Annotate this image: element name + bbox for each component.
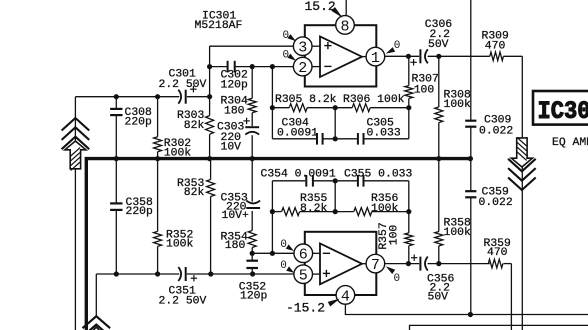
svg-text:0: 0 bbox=[280, 239, 287, 251]
svg-text:10V+: 10V+ bbox=[222, 210, 250, 222]
svg-text:M5218AF: M5218AF bbox=[195, 20, 243, 32]
wire bbox=[95, 274, 97, 317]
wire bbox=[438, 159, 440, 264]
voltage -15.2 at pin 4 bbox=[286, 299, 340, 316]
wire bbox=[334, 108, 336, 139]
svg-text:8: 8 bbox=[340, 18, 349, 35]
label IC301 bbox=[202, 11, 236, 23]
svg-text:180: 180 bbox=[225, 240, 246, 252]
wire bbox=[271, 67, 273, 139]
svg-text:100: 100 bbox=[389, 225, 401, 246]
voltage 0 at pin 6 bbox=[280, 239, 293, 251]
junction bbox=[114, 271, 119, 276]
wire bbox=[252, 252, 294, 254]
junction bbox=[114, 94, 119, 99]
wire bbox=[428, 55, 523, 57]
op-amp U301a + input mark bbox=[324, 42, 331, 49]
svg-text:100k: 100k bbox=[166, 239, 194, 251]
svg-text:4: 4 bbox=[341, 288, 350, 305]
resistor R355 bbox=[282, 193, 328, 216]
junction bbox=[436, 156, 441, 161]
wire bbox=[210, 66, 294, 68]
svg-text:15.2: 15.2 bbox=[305, 0, 336, 14]
svg-text:0.0091: 0.0091 bbox=[277, 128, 318, 140]
svg-text:50V: 50V bbox=[428, 39, 449, 51]
wire bbox=[157, 97, 159, 159]
junction bbox=[250, 156, 255, 161]
resistor R359 bbox=[484, 238, 512, 268]
svg-text:C355 0.033: C355 0.033 bbox=[344, 169, 413, 181]
op-amp U301b - input mark bbox=[323, 252, 330, 254]
wire bbox=[408, 56, 410, 139]
junction bbox=[468, 156, 473, 161]
capacitor C356 bbox=[411, 255, 455, 304]
junction bbox=[250, 271, 255, 276]
label EQ AMP bbox=[552, 137, 588, 149]
wire bbox=[312, 252, 320, 254]
junction bbox=[436, 261, 441, 266]
wire bbox=[187, 273, 294, 275]
capacitor C306 bbox=[410, 19, 452, 66]
svg-text:2: 2 bbox=[298, 60, 307, 77]
junction bbox=[270, 251, 275, 256]
capacitor C359 bbox=[465, 186, 513, 209]
resistor R304 bbox=[221, 96, 257, 118]
junction bbox=[406, 54, 411, 59]
wire bbox=[438, 56, 440, 158]
voltage 0 at pin 5 bbox=[280, 260, 294, 273]
svg-text:100: 100 bbox=[414, 85, 435, 97]
wire bbox=[74, 97, 76, 330]
wire bbox=[345, 304, 588, 315]
capacitor C358 bbox=[110, 197, 153, 218]
svg-text:6: 6 bbox=[299, 247, 308, 264]
svg-text:EQ AMP: EQ AMP bbox=[552, 137, 588, 149]
op-amp U301a triangle bbox=[320, 36, 362, 77]
wire bbox=[345, 0, 347, 16]
junction bbox=[207, 64, 212, 69]
junction bbox=[436, 54, 441, 59]
wire bbox=[272, 138, 408, 140]
svg-text:220p: 220p bbox=[126, 206, 154, 218]
wire bbox=[385, 55, 420, 57]
resistor R302 bbox=[154, 137, 192, 160]
op-amp U301b box bbox=[305, 232, 377, 295]
label M5218AF bbox=[195, 20, 243, 32]
junction bbox=[333, 178, 338, 183]
voltage 0 at pin 7 bbox=[386, 266, 400, 285]
svg-text:50V: 50V bbox=[428, 292, 449, 304]
svg-text:82k: 82k bbox=[184, 120, 205, 132]
svg-text:0: 0 bbox=[394, 273, 401, 285]
resistor R308 bbox=[435, 90, 471, 123]
capacitor C304 bbox=[277, 118, 323, 145]
capacitor C355 bbox=[344, 169, 413, 187]
resistor R309 bbox=[482, 31, 510, 61]
resistor R305 bbox=[275, 94, 337, 112]
wire bbox=[408, 181, 410, 264]
resistor R303 bbox=[177, 110, 214, 134]
junction bbox=[155, 94, 160, 99]
resistor R357 bbox=[378, 222, 413, 249]
ground bus bbox=[86, 159, 470, 330]
wire bbox=[272, 107, 408, 109]
resistor R354 bbox=[221, 231, 257, 253]
op-amp U301b pin 4 bbox=[336, 286, 355, 306]
op-amp U301a pin 8 bbox=[336, 16, 355, 36]
shielded cable (input L) bbox=[62, 118, 90, 170]
wire bbox=[272, 180, 408, 182]
capacitor C352 bbox=[239, 261, 268, 303]
capacitor C305 bbox=[358, 118, 401, 145]
wire bbox=[510, 264, 512, 330]
svg-text:180: 180 bbox=[224, 105, 245, 117]
svg-text:100k: 100k bbox=[444, 227, 472, 239]
svg-text:IC301: IC301 bbox=[538, 98, 588, 127]
svg-text:10V: 10V bbox=[221, 142, 242, 154]
wire bbox=[271, 181, 273, 254]
svg-text:0: 0 bbox=[283, 30, 290, 42]
wire bbox=[312, 45, 320, 47]
wire bbox=[385, 263, 420, 265]
wire bbox=[187, 96, 210, 98]
wire bbox=[210, 159, 212, 274]
resistor R358 bbox=[435, 217, 471, 246]
op-amp U301a pin 2 bbox=[293, 57, 312, 77]
wire bbox=[272, 211, 408, 213]
capacitor C351 bbox=[159, 267, 207, 308]
junction bbox=[406, 105, 411, 110]
wire bbox=[75, 96, 179, 98]
shielded cable (input R) bbox=[83, 316, 111, 330]
svg-text:100k: 100k bbox=[371, 203, 399, 215]
resistor R356 bbox=[354, 193, 399, 216]
shielded cable (output L) bbox=[508, 138, 536, 190]
wire bbox=[209, 46, 211, 159]
svg-text:0.033: 0.033 bbox=[367, 128, 401, 140]
junction bbox=[114, 156, 119, 161]
capacitor C353 bbox=[221, 193, 261, 223]
svg-text:0: 0 bbox=[394, 40, 401, 52]
resistor R353 bbox=[177, 178, 215, 199]
wire bbox=[362, 56, 366, 58]
svg-text:0.022: 0.022 bbox=[479, 197, 513, 209]
junction bbox=[468, 312, 473, 317]
wire bbox=[410, 325, 588, 330]
junction bbox=[406, 261, 411, 266]
svg-text:0.022: 0.022 bbox=[479, 125, 513, 137]
wire bbox=[115, 159, 117, 274]
svg-text:2.2 50V: 2.2 50V bbox=[159, 79, 207, 91]
op-amp U301a box bbox=[305, 25, 377, 86]
junction bbox=[207, 94, 212, 99]
op-amp U301a pin 1 bbox=[366, 47, 385, 67]
svg-text:220p: 220p bbox=[125, 116, 153, 128]
svg-text:8.2k: 8.2k bbox=[300, 203, 328, 215]
capacitor C354 bbox=[261, 169, 336, 187]
junction bbox=[270, 209, 275, 214]
junction bbox=[333, 209, 338, 214]
wire bbox=[470, 0, 472, 315]
op-amp U301b pin 5 bbox=[294, 265, 313, 285]
svg-text:470: 470 bbox=[487, 247, 508, 259]
voltage 0 at pin 2 bbox=[283, 50, 297, 62]
wire bbox=[210, 45, 294, 47]
svg-text:0: 0 bbox=[283, 50, 290, 62]
svg-text:2.2 50V: 2.2 50V bbox=[159, 296, 207, 308]
junction bbox=[250, 251, 255, 256]
wire bbox=[157, 159, 159, 274]
wire bbox=[362, 263, 366, 265]
junction bbox=[270, 105, 275, 110]
svg-text:R305 8.2k: R305 8.2k bbox=[275, 94, 337, 106]
resistor R352 bbox=[154, 230, 194, 251]
resistor R307 bbox=[405, 74, 439, 99]
wire bbox=[521, 56, 523, 330]
svg-text:3: 3 bbox=[298, 40, 307, 57]
svg-text:120p: 120p bbox=[240, 291, 268, 303]
svg-text:7: 7 bbox=[371, 257, 380, 274]
svg-text:0: 0 bbox=[280, 260, 287, 272]
junction bbox=[207, 156, 212, 161]
wire bbox=[312, 273, 320, 275]
voltage 15.2 at pin 8 bbox=[305, 0, 343, 18]
wire bbox=[334, 181, 336, 212]
svg-text:-15.2: -15.2 bbox=[286, 301, 325, 316]
junction bbox=[406, 209, 411, 214]
junction bbox=[155, 156, 160, 161]
svg-text:82k: 82k bbox=[184, 187, 205, 199]
op-amp U301a pin 3 bbox=[293, 37, 312, 57]
svg-text:470: 470 bbox=[485, 40, 506, 52]
op-amp U301b + input mark bbox=[323, 270, 330, 277]
svg-text:100k: 100k bbox=[164, 148, 192, 160]
op-amp U301b pin 6 bbox=[294, 244, 313, 264]
wire bbox=[312, 66, 320, 68]
junction bbox=[333, 105, 338, 110]
block IC301 label box bbox=[533, 91, 588, 126]
wire bbox=[96, 273, 179, 275]
wire bbox=[251, 67, 253, 159]
junction bbox=[155, 271, 160, 276]
svg-text:100k: 100k bbox=[444, 99, 472, 111]
voltage 0 at pin 1 bbox=[386, 40, 401, 53]
svg-text:R306 100k: R306 100k bbox=[343, 94, 405, 106]
op-amp U301b triangle bbox=[320, 243, 362, 284]
junction bbox=[333, 136, 338, 141]
svg-text:1: 1 bbox=[371, 50, 380, 67]
capacitor C309 bbox=[465, 115, 513, 138]
voltage 0 at pin 3 bbox=[283, 30, 297, 42]
svg-text:C354 0.0091: C354 0.0091 bbox=[261, 169, 336, 181]
resistor R306 bbox=[343, 94, 405, 112]
svg-text:5: 5 bbox=[299, 268, 308, 285]
junction bbox=[208, 271, 213, 276]
wire bbox=[251, 159, 253, 274]
capacitor C301 bbox=[159, 69, 207, 104]
op-amp U301b pin 7 bbox=[366, 254, 385, 274]
capacitor C303 bbox=[217, 118, 259, 154]
wire bbox=[115, 97, 117, 159]
wire bbox=[428, 263, 512, 265]
svg-text:120p: 120p bbox=[221, 79, 249, 91]
op-amp U301a - input mark bbox=[324, 65, 331, 67]
capacitor C308 bbox=[110, 107, 152, 128]
junction bbox=[250, 64, 255, 69]
junction bbox=[270, 64, 275, 69]
capacitor C302 bbox=[221, 61, 249, 92]
